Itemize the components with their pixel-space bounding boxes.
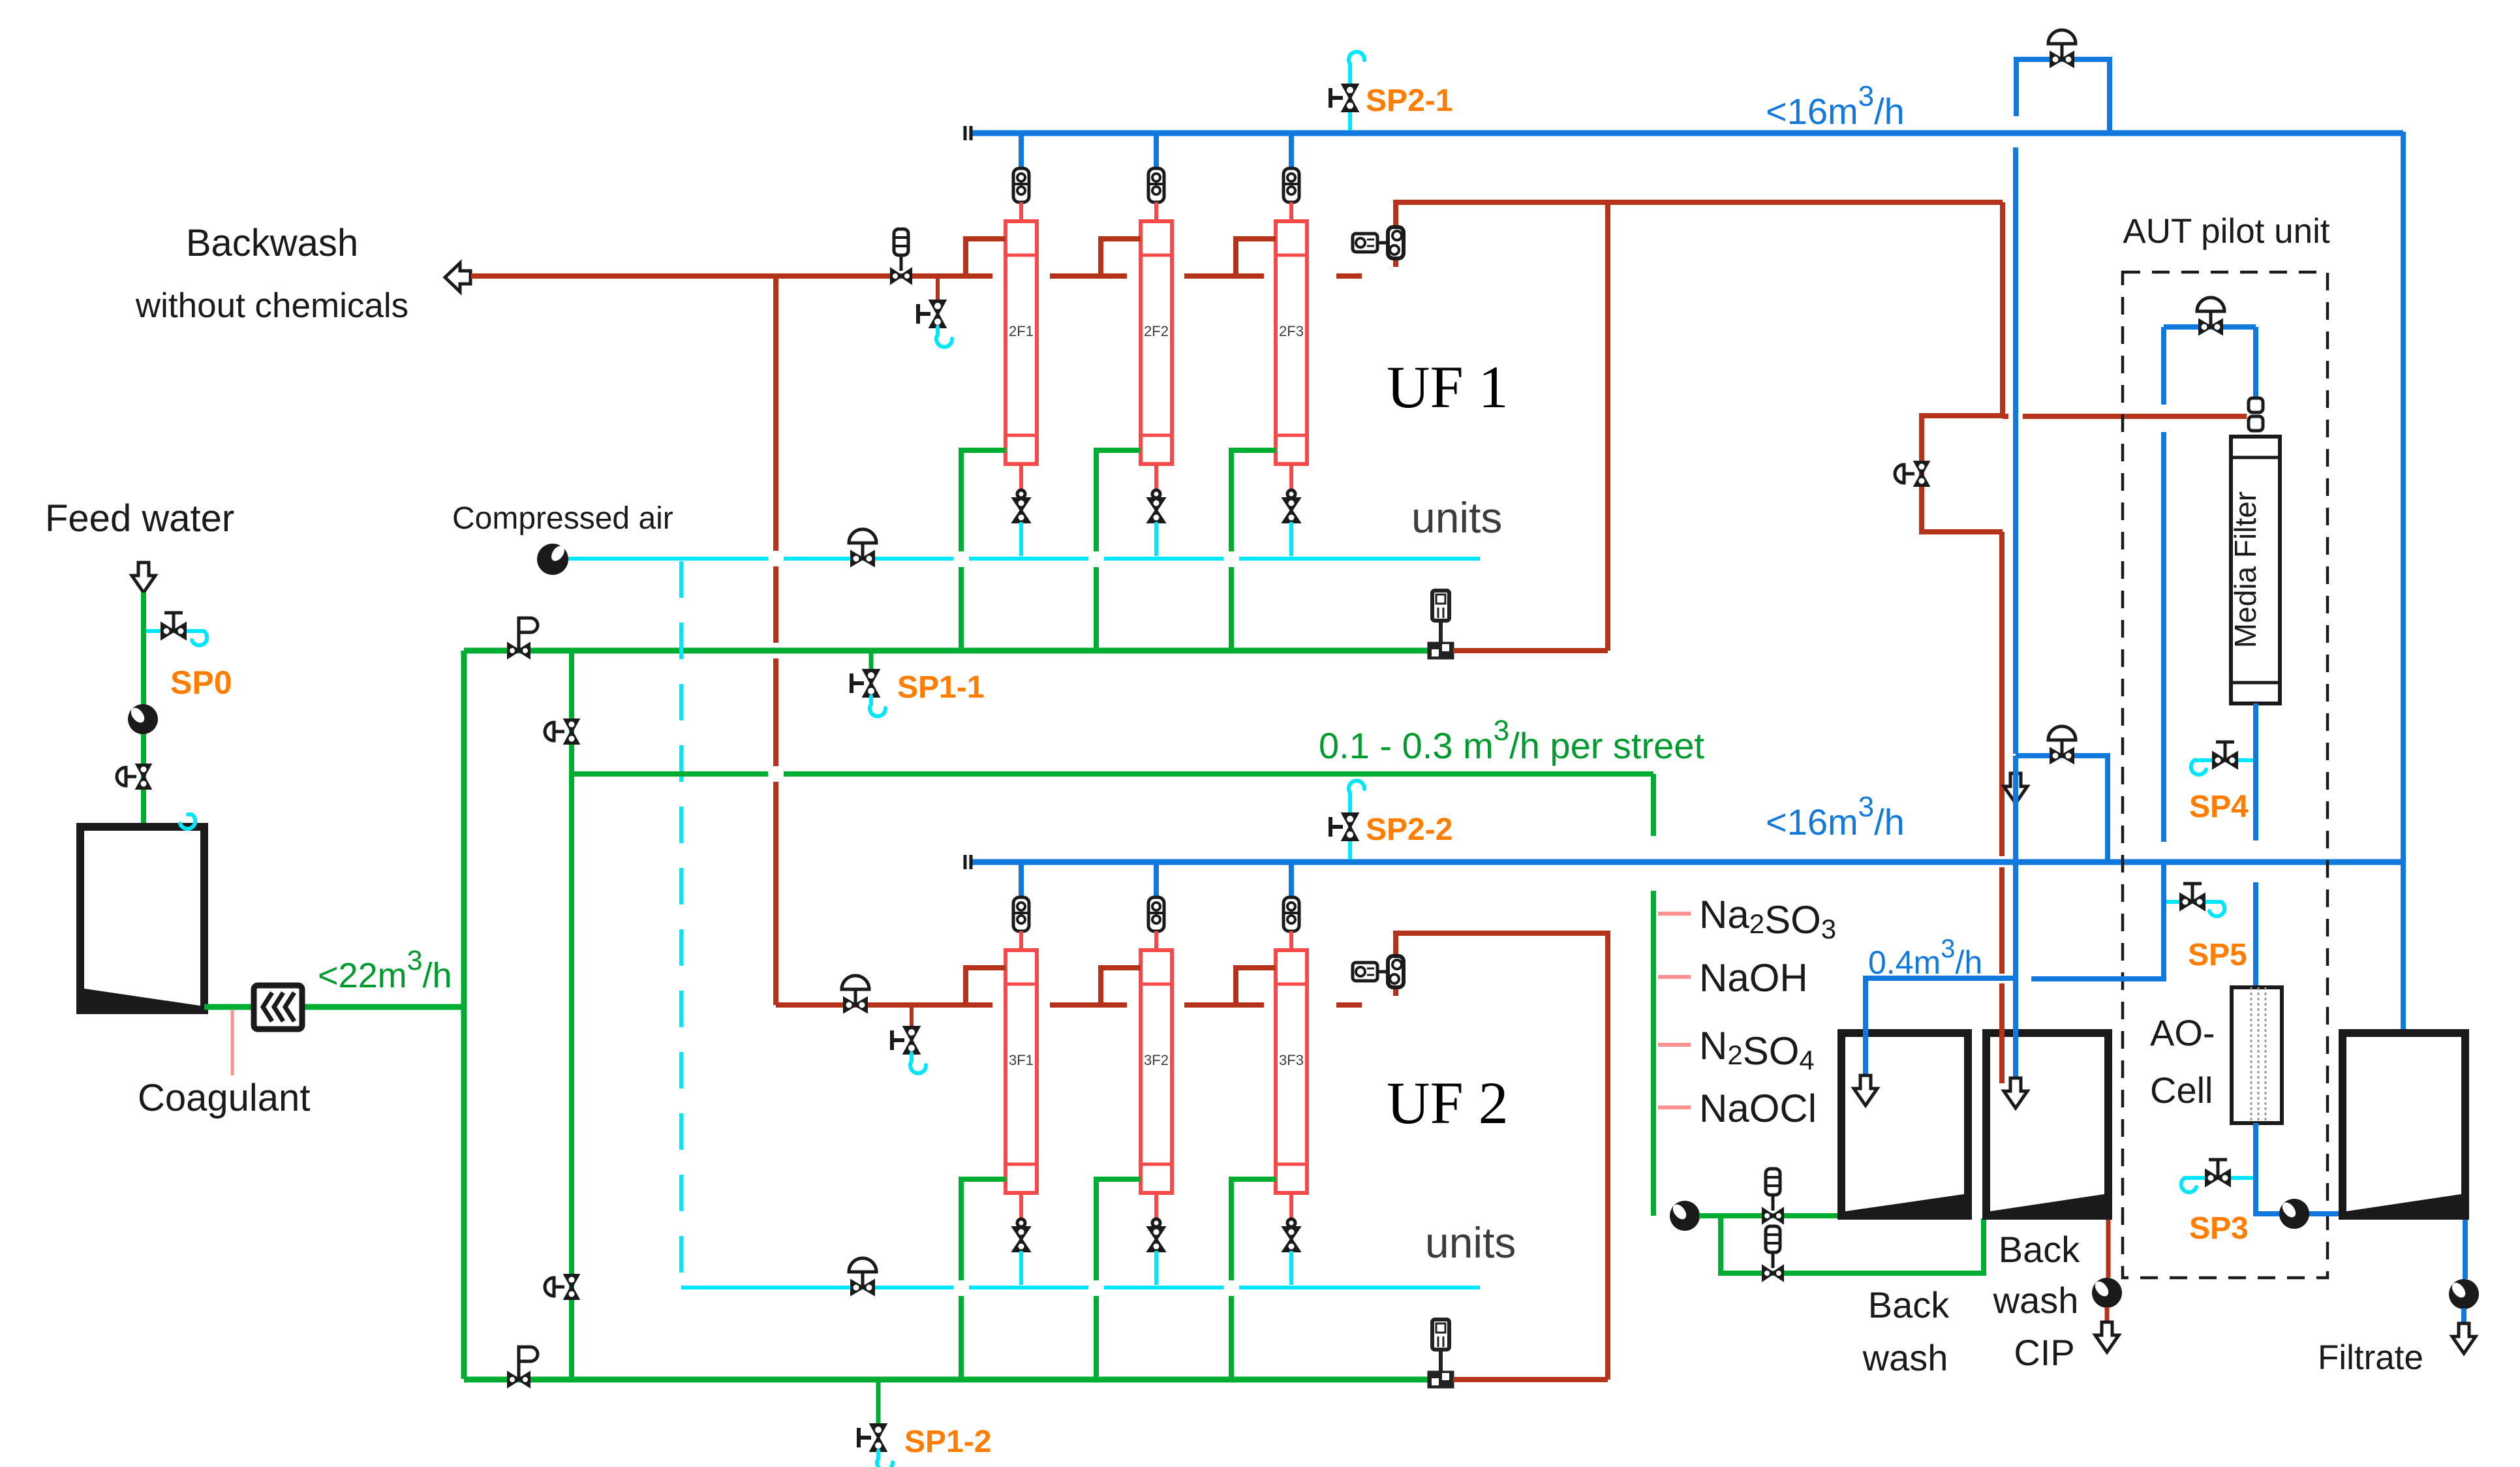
pipe blue filtrate header UF1 16m3-h xyxy=(965,126,2403,140)
pipe blue drop to column 3F1 xyxy=(1019,865,1024,897)
sample valve SP3 xyxy=(2181,1160,2253,1192)
pipe green to Back wash tank xyxy=(1699,1213,1841,1218)
pipe red concentrate drop xyxy=(2000,202,2005,416)
pipe red CIP tank outlet xyxy=(2106,1220,2111,1278)
pipe red stub into column 2F2 xyxy=(1154,202,1158,223)
UF module column 2F1 xyxy=(1006,221,1037,464)
Back wash tank xyxy=(1841,1033,1968,1216)
svg-text:3F3: 3F3 xyxy=(1279,1052,1304,1068)
pipe red backwash outlet xyxy=(471,273,480,279)
pipe green outlet elbow 3F3 xyxy=(1231,1179,1276,1380)
pipe blue media filter outlet xyxy=(2253,703,2258,987)
svg-text:Back: Back xyxy=(1999,1229,2080,1270)
pipe red concentrate return UF2 xyxy=(1396,933,1608,996)
label chemical 1400 xyxy=(1699,893,1836,944)
svg-text:3F1: 3F1 xyxy=(1009,1052,1034,1068)
control valve on green header UF2 xyxy=(508,1347,538,1386)
pipe blue drop to column 2F2 xyxy=(1154,136,1159,168)
label Back wash CIP xyxy=(1993,1229,2081,1373)
svg-text:Back: Back xyxy=(1868,1284,1950,1325)
label Filtrate xyxy=(2318,1338,2423,1377)
svg-text:NaOH: NaOH xyxy=(1699,956,1808,1000)
UF module column 2F3 xyxy=(1276,221,1307,464)
pipe blue filtrate header UF2 16m3-h xyxy=(965,855,2403,869)
feed tank xyxy=(80,827,204,1010)
backwash outlet arrow xyxy=(445,263,470,292)
label <16m3/h UF2 xyxy=(1766,791,1905,842)
air valve above column 2F3 xyxy=(1283,168,1299,202)
pipe cyan air header UF1 xyxy=(568,557,1480,561)
UF module column 2F2 xyxy=(1141,221,1172,464)
valve on UF1 backwash line xyxy=(891,229,911,283)
arrow into Filtrate tank xyxy=(2391,1078,2415,1108)
sample valve SP4 xyxy=(2191,742,2253,775)
label <22m3/h xyxy=(318,945,452,995)
svg-text:Feed water: Feed water xyxy=(45,497,234,540)
pipe green outlet elbow 2F3 xyxy=(1231,450,1276,651)
svg-text:SP1-2: SP1-2 xyxy=(904,1425,991,1459)
pipe green to CIP tank xyxy=(1721,1218,1984,1273)
drain valve below 3F2 xyxy=(1148,1193,1164,1285)
pipe green second riser xyxy=(569,651,574,1379)
pipe red stub into column 3F1 xyxy=(1019,931,1023,951)
pipe red stub into column 2F3 xyxy=(1289,202,1293,223)
svg-text:SP4: SP4 xyxy=(2189,790,2249,824)
sample valve SP2-2 xyxy=(1330,780,1364,859)
pipe blue long drop xyxy=(2013,147,2018,754)
UF module column 3F3 xyxy=(1276,950,1307,1193)
label SP0 xyxy=(170,664,232,701)
dome valve media filter loop xyxy=(2197,298,2224,333)
air valve above column 3F1 xyxy=(1013,897,1029,931)
arrow into Back wash tank xyxy=(1854,1075,1877,1105)
vent hook on feed tank xyxy=(180,814,195,829)
svg-text:without chemicals: without chemicals xyxy=(135,286,408,325)
cyan dashed drop to UF2 air header xyxy=(679,561,683,1288)
flow arrow on blue drop xyxy=(2004,773,2027,803)
label chemical 1697 xyxy=(1699,1087,1817,1130)
pipe blue filtrate drop xyxy=(2401,132,2406,1078)
UF module column 3F1 xyxy=(1006,950,1037,1193)
flow meter on UF2 feed xyxy=(1428,1320,1454,1388)
pipe blue below filtrate pump xyxy=(2461,1308,2466,1323)
sample valve SP5 xyxy=(2166,884,2224,916)
svg-text:units: units xyxy=(1425,1218,1516,1267)
svg-text:2F1: 2F1 xyxy=(1009,323,1034,339)
svg-text:2F3: 2F3 xyxy=(1279,323,1304,339)
svg-text:Compressed air: Compressed air xyxy=(452,501,673,536)
valve with indicator on UF1 concentrate xyxy=(1353,227,1404,258)
coagulant dosing line xyxy=(231,1010,234,1075)
label Back wash xyxy=(1862,1284,1950,1378)
Back wash CIP tank xyxy=(1986,1033,2108,1216)
air valve above column 3F3 xyxy=(1283,897,1299,931)
filtrate transfer pump xyxy=(2279,1199,2309,1229)
compressed air source xyxy=(537,544,568,575)
dome valve on air header UF1 xyxy=(849,529,876,565)
drain valve below 2F3 xyxy=(1283,464,1299,556)
pipe green riser xyxy=(461,651,467,1379)
pipe green chemical dosing line xyxy=(1651,891,1656,1216)
AO-Cell xyxy=(2232,987,2282,1123)
air valve above column 3F2 xyxy=(1148,897,1164,931)
sample valve SP1-2 xyxy=(859,1382,893,1467)
chemical tick 1497 xyxy=(1658,975,1691,979)
feed pump xyxy=(128,704,158,734)
dome valve on blue branch xyxy=(2048,726,2076,762)
pipe red below CIP pump xyxy=(2105,1307,2110,1322)
pipe red riser to UF2 xyxy=(773,275,778,1005)
svg-text:SP1-1: SP1-1 xyxy=(897,670,984,705)
svg-text:SP5: SP5 xyxy=(2188,938,2247,972)
label units UF1 xyxy=(1411,493,1502,542)
label SP5 xyxy=(2188,938,2247,972)
label UF 2 xyxy=(1387,1070,1509,1136)
svg-text:wash: wash xyxy=(1993,1280,2079,1321)
label SP2-2 xyxy=(1366,812,1452,847)
drain valve below 3F1 xyxy=(1013,1193,1029,1285)
label chemical 1497 xyxy=(1699,956,1808,1000)
pipe blue media filter inlet loop xyxy=(2164,327,2256,842)
pipe red recirculation UF1 xyxy=(1453,205,1608,651)
drain valve below 2F1 xyxy=(1013,464,1029,556)
svg-text:Media Filter: Media Filter xyxy=(2228,491,2262,648)
pipe red stub into column 3F2 xyxy=(1154,931,1158,951)
pipe blue bypass over valve xyxy=(2016,59,2110,133)
Filtrate tank xyxy=(2343,1033,2465,1216)
pipe red concentrate header UF1 xyxy=(1396,202,2003,267)
dome valve on UF2 feed line xyxy=(842,976,869,1011)
pipe green feed inlet xyxy=(141,593,146,902)
media filter column xyxy=(2228,437,2280,703)
air valve above column 2F2 xyxy=(1148,168,1164,202)
label Compressed air xyxy=(452,501,673,536)
pipe red backwash feed line UF1 xyxy=(480,273,1362,279)
svg-text:SP2-1: SP2-1 xyxy=(1366,84,1452,118)
arrow below CIP pump xyxy=(2095,1322,2119,1352)
label SP4 xyxy=(2189,790,2249,824)
sample valve SP1-1 xyxy=(852,653,885,717)
svg-text:Backwash: Backwash xyxy=(186,222,358,264)
drain valve with sample hook on UF2 feed line xyxy=(892,1008,926,1073)
label 0.1-0.3 m3/h per street xyxy=(1319,715,1704,766)
pipe blue drop into CIP tank xyxy=(2013,756,2018,1078)
pipe cyan air header UF2 xyxy=(681,1286,1480,1289)
pipe red stub into column 3F3 xyxy=(1289,931,1293,951)
label <16m3/h UF1 xyxy=(1766,80,1905,132)
air valve above column 2F1 xyxy=(1013,168,1029,202)
manual valve on red bypass xyxy=(1895,462,1928,486)
chemical tick 1697 xyxy=(1658,1105,1691,1109)
svg-text:3F2: 3F2 xyxy=(1144,1052,1169,1068)
pipe red feed elbow 3F1 xyxy=(966,968,1006,1005)
manual valve on riser upper xyxy=(545,720,578,743)
dome valve on air header UF2 xyxy=(849,1258,876,1294)
chemical tick 1400 xyxy=(1658,912,1691,916)
CIP pump xyxy=(2092,1278,2122,1308)
pipe green feed header UF2 xyxy=(464,1377,1428,1383)
manual valve on riser lower xyxy=(545,1275,578,1299)
pipe red feed elbow 2F1 xyxy=(966,239,1006,276)
drain valve with sample hook on UF1 backwash line xyxy=(918,279,952,347)
pipe red feed elbow 3F3 xyxy=(1236,968,1276,1005)
label without chemicals xyxy=(135,286,408,325)
pipe red feed elbow 3F2 xyxy=(1101,968,1141,1005)
pipe green outlet elbow 3F2 xyxy=(1096,1179,1141,1380)
label AUT pilot unit xyxy=(2123,212,2329,251)
svg-text:Filtrate: Filtrate xyxy=(2318,1338,2423,1377)
manual valve on feed line xyxy=(117,765,150,788)
pipe blue 0.4m3/h xyxy=(1866,978,2016,1103)
label SP1-2 xyxy=(904,1425,991,1459)
solenoid valve to CIP tank xyxy=(1763,1226,1783,1280)
svg-text:AUT pilot unit: AUT pilot unit xyxy=(2123,212,2329,251)
pipe green outlet elbow 2F1 xyxy=(961,450,1006,651)
valve with indicator on UF2 concentrate xyxy=(1353,956,1404,987)
dosing pump xyxy=(1670,1201,1700,1231)
drain valve below 3F3 xyxy=(1283,1193,1299,1285)
label UF 1 xyxy=(1387,354,1509,420)
svg-text:UF 1: UF 1 xyxy=(1387,354,1509,420)
drain valve below 2F2 xyxy=(1148,464,1164,556)
label Feed water xyxy=(45,497,234,540)
pipe blue drop to column 3F3 xyxy=(1289,865,1294,897)
svg-text:2F2: 2F2 xyxy=(1144,323,1169,339)
feed water inlet arrow xyxy=(132,563,155,593)
label 0.4m3/h xyxy=(1868,934,1982,981)
svg-text:CIP: CIP xyxy=(2014,1332,2074,1373)
flow meter on UF1 feed xyxy=(1428,591,1454,659)
pipe blue drop to column 2F3 xyxy=(1289,136,1294,168)
pipe red feed elbow 2F3 xyxy=(1236,239,1276,276)
svg-text:Cell: Cell xyxy=(2150,1070,2213,1111)
svg-text:wash: wash xyxy=(1862,1337,1948,1378)
filtrate pump xyxy=(2449,1279,2479,1309)
pipe green feed header UF1 xyxy=(464,648,1428,654)
chemical tick 1601 xyxy=(1658,1043,1691,1047)
pipe blue AO-Cell outlet xyxy=(2256,1123,2343,1214)
pipe red to media filter xyxy=(2003,414,2247,419)
label Coagulant xyxy=(138,1077,310,1119)
label SP3 xyxy=(2189,1211,2249,1246)
pipe blue filtrate outlet xyxy=(2463,1220,2468,1279)
svg-text:Coagulant: Coagulant xyxy=(138,1077,310,1119)
svg-text:units: units xyxy=(1411,493,1502,542)
pipe green outlet elbow 2F2 xyxy=(1096,450,1141,651)
label AO-Cell xyxy=(2150,1012,2215,1111)
svg-text:SP2-2: SP2-2 xyxy=(1366,812,1452,847)
pipe red bypass with valve xyxy=(1922,416,2003,532)
arrow below filtrate pump xyxy=(2452,1323,2476,1353)
control valve on green header UF1 xyxy=(508,618,538,657)
label SP2-1 xyxy=(1366,84,1452,118)
pipe red backwash feed line UF2 xyxy=(776,1002,1362,1008)
pipe blue drop to column 2F1 xyxy=(1019,136,1024,168)
arrow blue into CIP tank xyxy=(2004,1078,2027,1108)
pipe blue drop to column 3F2 xyxy=(1154,865,1159,897)
flow indicator media filter xyxy=(2249,398,2263,431)
UF module column 3F2 xyxy=(1141,950,1172,1193)
pipe red into CIP tank xyxy=(1999,532,2005,1083)
pipe green outlet elbow 3F1 xyxy=(961,1179,1006,1380)
svg-text:SP3: SP3 xyxy=(2189,1211,2249,1246)
pipe red feed elbow 2F2 xyxy=(1101,239,1141,276)
corner from riser to UF2 feed line xyxy=(773,1002,778,1005)
strainer xyxy=(254,985,302,1029)
label SP1-1 xyxy=(897,670,984,705)
sample valve SP0 xyxy=(146,613,207,645)
svg-text:UF 2: UF 2 xyxy=(1387,1070,1509,1136)
svg-text:AO-: AO- xyxy=(2150,1012,2215,1053)
dashed AUT boundary xyxy=(2123,272,2328,1278)
dome valve on blue bypass xyxy=(2048,30,2076,66)
label units UF2 xyxy=(1425,1218,1516,1267)
sample valve SP2-1 xyxy=(1330,52,1364,131)
pipe red stub into column 2F1 xyxy=(1019,202,1023,223)
pipe green dosing per street xyxy=(572,774,1653,836)
solenoid valve to Back wash tank xyxy=(1763,1169,1783,1222)
svg-text:NaOCl: NaOCl xyxy=(1699,1087,1817,1130)
pipe red recirculation UF2 xyxy=(1453,931,1608,1380)
pipe blue SP5 branch xyxy=(2031,865,2164,979)
svg-text:SP0: SP0 xyxy=(170,664,232,701)
label Backwash xyxy=(186,222,358,264)
label chemical 1601 xyxy=(1699,1024,1815,1075)
pipe blue branch with valve xyxy=(2016,756,2108,862)
pipe green tank outlet xyxy=(204,1004,467,1010)
